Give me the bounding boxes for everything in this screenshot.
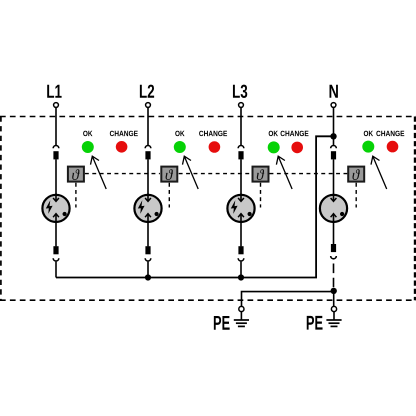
junction PE node	[331, 288, 337, 294]
dashed link theta F2 to theta F3	[179, 173, 252, 175]
label PE (right)	[307, 316, 323, 330]
disconnector socket L1 (lower)	[53, 258, 59, 261]
wire arrester F1 bottom electrode down	[55, 214, 57, 247]
disconnector plug contact L3 (upper)	[238, 151, 243, 159]
device outline right edge	[414, 117, 416, 301]
terminal label L1	[47, 85, 61, 98]
disconnector socket L1 (upper)	[53, 146, 59, 149]
wire L1 plug to arrester F1	[55, 159, 57, 194]
wire L3 terminal to disconnector	[240, 107, 242, 145]
disconnector socket L3 (upper)	[238, 146, 244, 149]
label CHANGE F3	[281, 131, 309, 136]
wire arrester F4 bottom electrode down	[333, 214, 335, 245]
thermal disconnect theta F3	[253, 167, 269, 182]
LED CHANGE (red) F2	[209, 141, 221, 153]
disconnector plug contact L3 (lower)	[238, 246, 243, 254]
wire arrester F3 bottom electrode down	[240, 214, 242, 247]
device outline bottom edge	[0, 299, 416, 301]
LED OK (green) F3	[268, 141, 280, 153]
disconnector socket L2 (upper)	[145, 146, 151, 149]
thermal disconnect theta F1	[68, 167, 84, 182]
wire L2 plug to arrester F2	[147, 159, 149, 194]
LED CHANGE (red) F4	[387, 141, 399, 153]
terminal PE (left)	[239, 306, 244, 311]
LED OK (green) F1	[82, 141, 94, 153]
wire arrester F2 bottom electrode down	[147, 214, 149, 247]
wire N terminal to disconnector	[333, 107, 335, 145]
wire PE bus to left PE terminal	[242, 292, 334, 307]
label OK F3	[269, 131, 278, 136]
wire L3 socket to common bus	[240, 262, 242, 278]
disconnector plug contact L2 (upper)	[145, 151, 150, 159]
disconnector plug contact L1 (upper)	[53, 151, 58, 159]
wire N plug to arrester F4	[333, 159, 335, 194]
indicator arrow F1	[91, 156, 107, 189]
disconnector plug contact N (lower)	[331, 244, 336, 252]
thermal disconnect theta F4	[348, 167, 364, 182]
ground symbol PE (right)	[326, 312, 341, 327]
surge arrester F3 (L3-N varistor/gap)	[227, 194, 254, 222]
label CHANGE F2	[199, 131, 227, 136]
disconnector socket N (lower)	[331, 256, 337, 259]
label OK F2	[175, 131, 184, 136]
indicator arrow F2	[183, 156, 199, 189]
terminal N	[331, 103, 336, 108]
ground symbol PE (left)	[234, 312, 249, 327]
device outline top edge	[0, 116, 416, 118]
disconnector plug contact N (upper)	[331, 151, 336, 159]
disconnector socket L2 (lower)	[145, 258, 151, 261]
thermal disconnect theta F2	[161, 167, 177, 182]
indicator arrow F3	[276, 156, 292, 189]
disconnector plug contact L2 (lower)	[145, 246, 150, 254]
terminal label N	[330, 85, 338, 98]
LED CHANGE (red) F3	[291, 142, 303, 154]
junction L3 on common bus	[238, 274, 244, 280]
surge arrester F4 (N-PE spark gap)	[320, 194, 347, 222]
dashed wire N-PE gap to PE junction	[333, 264, 335, 288]
wire common bus L1-L3 to N (node MP)	[56, 136, 333, 277]
dashed link theta F3 to theta F4	[270, 173, 348, 175]
wire L2 terminal to disconnector	[147, 107, 149, 145]
terminal label L3	[233, 85, 247, 98]
LED CHANGE (red) F1	[116, 141, 128, 153]
dashed link theta F1 to arrester	[75, 183, 77, 208]
label OK F1	[83, 131, 92, 136]
wire L1 socket to common bus	[55, 262, 57, 278]
terminal PE (right)	[331, 306, 336, 311]
dashed link theta F4 to arrester	[355, 183, 357, 208]
dashed link theta F1 to theta F2	[85, 173, 160, 175]
surge arrester F1 (L1-N varistor/gap)	[42, 194, 69, 222]
wire L2 socket to common bus	[147, 262, 149, 278]
wire L1 terminal to disconnector	[55, 107, 57, 145]
dashed link theta F3 to arrester	[260, 183, 262, 208]
surge arrester F2 (L2-N varistor/gap)	[134, 194, 161, 222]
wire PE junction to right PE terminal	[333, 291, 335, 306]
terminal L1	[54, 103, 59, 108]
label CHANGE F1	[110, 131, 138, 136]
label PE (left)	[214, 316, 230, 330]
label CHANGE F4	[376, 131, 404, 136]
junction N on neutral line	[330, 133, 336, 139]
device outline left edge	[0, 117, 2, 301]
junction L2 on common bus	[145, 274, 151, 280]
LED OK (green) F4	[362, 141, 374, 153]
disconnector plug contact L1 (lower)	[53, 246, 58, 254]
terminal label L2	[140, 85, 154, 98]
disconnector socket N (upper)	[331, 146, 337, 149]
label OK F4	[364, 131, 373, 136]
indicator arrow F4	[371, 156, 387, 189]
dashed link theta F2 to arrester	[168, 183, 170, 208]
LED OK (green) F2	[174, 141, 186, 153]
terminal L3	[239, 103, 244, 108]
disconnector socket L3 (lower)	[238, 258, 244, 261]
wire L3 plug to arrester F3	[240, 159, 242, 194]
terminal L2	[146, 103, 151, 108]
